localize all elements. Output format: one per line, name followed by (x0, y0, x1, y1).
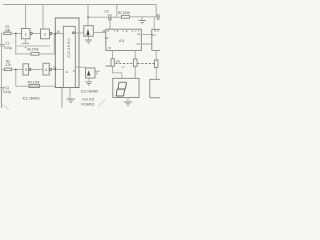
svg-text:27k: 27k (6, 63, 12, 67)
svg-text:IC4: IC4 (119, 39, 124, 43)
svg-text:IC4, IC5: IC4, IC5 (83, 98, 95, 102)
svg-text:IC3 CB4069: IC3 CB4069 (81, 90, 99, 94)
svg-text:R4 370k: R4 370k (28, 80, 40, 84)
svg-text:I=CB4511: I=CB4511 (81, 103, 95, 107)
svg-text:C3: C3 (105, 10, 109, 14)
svg-text:0.01µ: 0.01µ (4, 46, 12, 50)
svg-text:R2 100k: R2 100k (118, 11, 130, 15)
svg-text:C1: C1 (137, 32, 141, 36)
svg-text:×7: ×7 (122, 65, 126, 69)
svg-text:C9: C9 (108, 46, 112, 50)
svg-text:10: 10 (57, 30, 61, 34)
svg-text:0.02µ: 0.02µ (3, 90, 11, 94)
svg-text:11: 11 (53, 65, 57, 69)
svg-text:C3: C3 (137, 42, 141, 46)
svg-text:A2: A2 (102, 29, 106, 33)
svg-text:R10: R10 (106, 64, 111, 68)
svg-text:C0: C0 (105, 36, 109, 40)
svg-text:20k: 20k (5, 28, 11, 32)
svg-text:P V: P V (155, 29, 159, 33)
svg-text:11: 11 (65, 70, 68, 74)
svg-text:300: 300 (116, 60, 121, 64)
svg-text:IC1 CB4001: IC1 CB4001 (23, 96, 41, 100)
svg-text:P TE LE Vcc: P TE LE Vcc (108, 29, 141, 33)
svg-text:6A 370k: 6A 370k (27, 47, 39, 51)
svg-text:CD4060: CD4060 (67, 39, 71, 58)
svg-text:C1: C1 (152, 33, 156, 37)
